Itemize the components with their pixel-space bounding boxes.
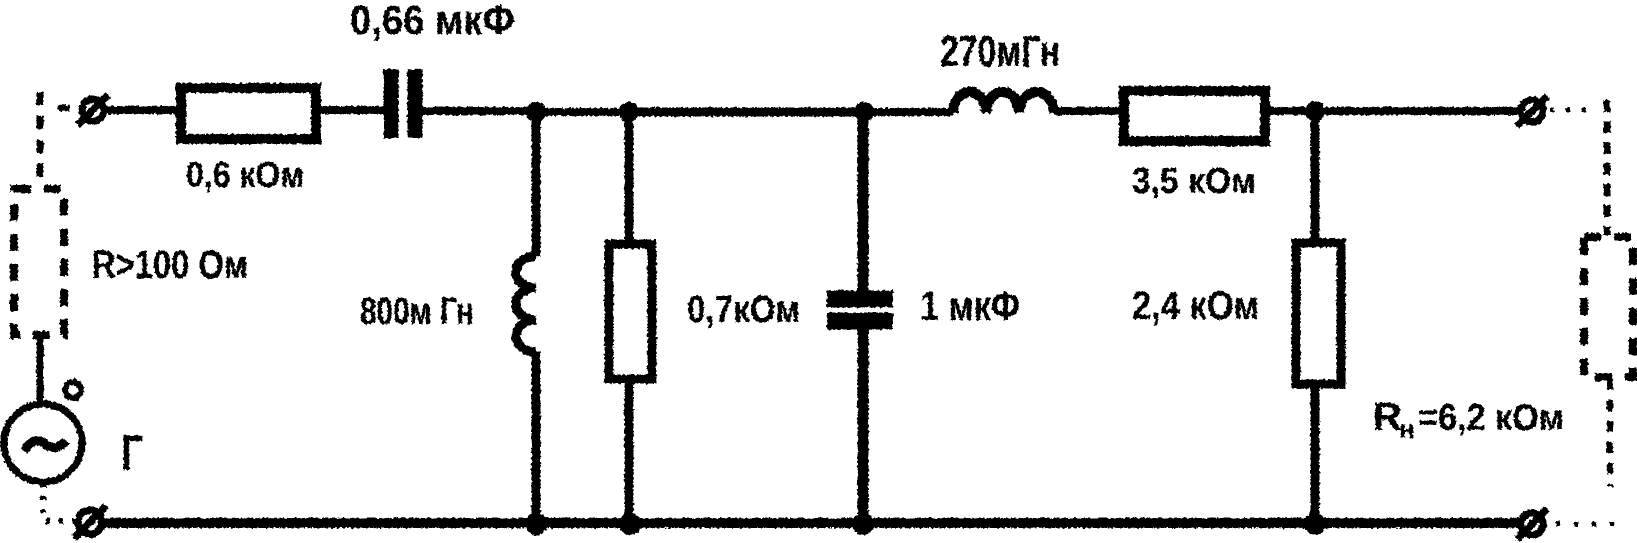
terminal top-left xyxy=(78,95,108,125)
resistor R2 0,7 kOhm xyxy=(609,244,652,379)
svg-text:н: н xyxy=(1399,414,1415,444)
svg-text:270мГн: 270мГн xyxy=(940,27,1060,76)
wire node B to node C xyxy=(629,108,864,117)
label o terminal mark xyxy=(65,382,81,398)
wire node C to L2 xyxy=(864,108,953,116)
bottom node B junction xyxy=(619,513,641,535)
svg-text:0,6 кОм: 0,6 кОм xyxy=(186,154,304,195)
inductor L2 270 mH xyxy=(953,92,1054,113)
resistor R4 2,4 kOhm xyxy=(1296,243,1341,384)
wire R2 to bottom rail xyxy=(625,380,634,524)
wire L2 to R3 xyxy=(1054,107,1121,115)
bottom node D junction xyxy=(1304,513,1326,535)
wire node C down to C2 xyxy=(858,112,869,292)
dotted wire right of terminal bottom-right xyxy=(1556,522,1615,527)
wire node B down to R2 xyxy=(625,112,634,243)
bottom node A junction xyxy=(525,513,547,535)
dashed wire left top xyxy=(37,92,44,188)
dashed load resistor Rn xyxy=(1584,237,1633,377)
svg-text:R: R xyxy=(1373,395,1402,439)
svg-text:=6,2 кОм: =6,2 кОм xyxy=(1418,397,1564,438)
wire Ri to generator xyxy=(37,335,44,405)
terminal bottom-right xyxy=(1517,509,1547,539)
dotted wire generator to bottom xyxy=(40,483,46,518)
dotted wire right of terminal top-right xyxy=(1550,108,1594,113)
node C junction xyxy=(854,102,874,122)
generator sine symbol xyxy=(24,441,66,451)
wire node A down to L1 xyxy=(532,112,541,256)
node A junction xyxy=(526,102,546,122)
svg-text:1 мкФ: 1 мкФ xyxy=(920,283,1020,329)
bottom node C junction xyxy=(852,513,874,535)
wire C1 to node A xyxy=(422,107,536,115)
svg-text:2,4 кОм: 2,4 кОм xyxy=(1132,284,1259,328)
svg-text:0,7кОм: 0,7кОм xyxy=(687,289,800,331)
inductor L1 800m H xyxy=(516,256,536,352)
dashed wire right top xyxy=(1604,100,1611,235)
wire node A to node B xyxy=(536,108,629,116)
wire terminal to R1 xyxy=(104,106,178,114)
wire R3 to node D and terminal xyxy=(1266,107,1520,115)
wire R1 to C1 xyxy=(317,106,386,114)
dashed wire stub near terminal top-left xyxy=(58,105,70,111)
capacitor C2 1 mkF xyxy=(827,299,893,321)
dashed resistor Ri R>100 Ohm xyxy=(14,189,64,335)
dotted wire to bottom-left terminal xyxy=(46,518,76,524)
svg-text:R>100 Ом: R>100 Ом xyxy=(92,243,248,287)
wire C2 to bottom rail xyxy=(858,329,869,524)
wire node D down to R4 xyxy=(1311,111,1320,242)
dashed wire right bottom xyxy=(1607,379,1613,487)
bottom rail wire xyxy=(104,518,1520,528)
terminal top-right xyxy=(1517,96,1547,126)
svg-text:800м Гн: 800м Гн xyxy=(360,291,474,333)
resistor R3 3,5 kOhm xyxy=(1124,91,1265,141)
node B junction xyxy=(619,102,639,122)
svg-text:0,66 мкФ: 0,66 мкФ xyxy=(350,0,515,43)
node D junction xyxy=(1305,101,1325,121)
resistor R1 0,6 kOhm xyxy=(181,88,316,139)
terminal bottom-left xyxy=(74,506,106,538)
wire L1 to bottom rail xyxy=(532,352,541,524)
capacitor C1 0,66 mkF xyxy=(391,69,415,138)
generator G circle xyxy=(4,404,82,482)
svg-text:Г: Г xyxy=(121,425,143,481)
wire R4 to bottom rail xyxy=(1311,385,1320,525)
svg-text:3,5 кОм: 3,5 кОм xyxy=(1132,160,1256,201)
